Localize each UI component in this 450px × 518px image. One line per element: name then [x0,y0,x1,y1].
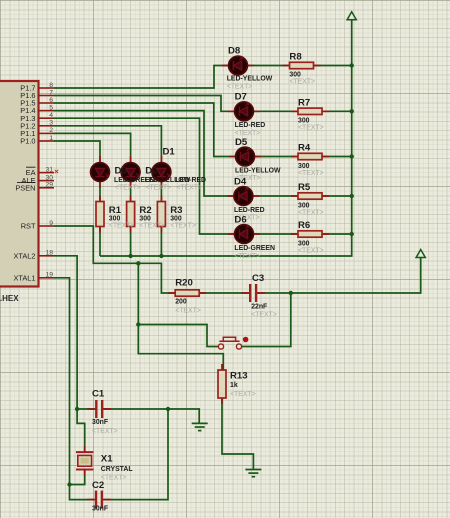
node rail-D6 [350,232,354,236]
pin 1 P1.0 stub [39,140,55,142]
svg-text:7: 7 [49,89,53,96]
resistor R13 [218,364,226,404]
svg-text:LED-GREEN: LED-GREEN [234,245,275,252]
svg-text:D6: D6 [234,215,246,226]
svg-text:XTAL1: XTAL1 [13,273,35,282]
svg-text:C1: C1 [92,389,105,400]
pin 6 P1.5 stub [39,102,55,104]
svg-text:R13: R13 [230,371,248,382]
pin 4 P1.3 stub [39,117,55,119]
svg-text:R6: R6 [298,220,310,231]
svg-text:D1: D1 [163,147,176,158]
svg-text:LED-RED: LED-RED [235,122,266,129]
pin 29 PSEN stub [39,187,55,189]
svg-text:D8: D8 [228,46,241,57]
svg-text:<TEXT>: <TEXT> [230,391,256,398]
svg-text:P1.0: P1.0 [20,137,35,146]
svg-text:<TEXT>: <TEXT> [289,79,315,86]
svg-text:<TEXT>: <TEXT> [234,253,260,260]
svg-text:R8: R8 [289,52,302,63]
svg-text:<TEXT>: <TEXT> [175,307,201,314]
svg-text:4: 4 [49,112,53,119]
ground below R13 [245,470,261,477]
wire XTAL2 to crystal top [77,409,85,452]
svg-text:D4: D4 [234,177,247,188]
wire C1 to ground [103,409,199,423]
microcontroller U1 body [0,81,39,287]
svg-text:300: 300 [139,215,151,222]
svg-text:8: 8 [49,82,53,89]
LED D2 [121,156,140,188]
svg-text:200: 200 [175,299,187,306]
node rail-D5 [350,154,354,158]
svg-text:3: 3 [49,120,53,127]
power arrow top [347,12,356,20]
svg-text:XTAL2: XTAL2 [13,251,35,260]
svg-text:D5: D5 [235,137,248,148]
svg-text:C2: C2 [92,480,104,491]
pin 19 XTAL1 stub [39,277,55,279]
node C1-left [75,407,79,411]
wire C1 node to C2 right [103,409,168,500]
push button switch [218,337,241,349]
wire P1.1 to D2 chain [54,133,131,256]
LED D7 [228,102,260,121]
svg-text:18: 18 [45,250,53,257]
svg-text:30: 30 [45,174,53,181]
wire P1.2 to D1 chain [54,126,161,256]
svg-text:D3: D3 [115,166,127,177]
svg-text:R4: R4 [298,143,311,154]
svg-text:RST: RST [21,222,36,231]
LED D8 [222,56,254,75]
svg-text:<TEXT>: <TEXT> [115,185,141,192]
wire power rail [100,20,352,257]
svg-text:C3: C3 [252,273,264,284]
pin 5 P1.4 stub [39,110,55,112]
wire node to C2 left [70,485,97,500]
svg-text:30nF: 30nF [92,506,108,513]
svg-text:1: 1 [49,135,53,142]
svg-text:300: 300 [298,202,310,209]
wire P1.4 to D4 row [54,111,352,196]
svg-text:31: 31 [45,166,53,173]
wire reset node down to R13 [138,263,223,369]
svg-text:300: 300 [298,163,310,170]
wire C1 left lead wire [77,408,96,410]
node reset-B [136,261,140,265]
pin 3 P1.2 stub [39,125,55,127]
PSEN overline [17,181,36,183]
wire P1.5 to D5 row [54,103,352,157]
resistor R6 [291,231,329,237]
LED D5 [229,147,261,166]
capacitor C2 [87,491,111,509]
svg-text:LED-YELLOW: LED-YELLOW [235,167,281,174]
pin 30 ALE stub [39,180,55,182]
svg-text:<TEXT>: <TEXT> [251,312,277,319]
svg-text:<TEXT>: <TEXT> [298,247,324,254]
svg-text:29: 29 [45,182,53,189]
node switch-branch [136,322,140,326]
resistor R2 [127,196,135,233]
crystal X1 [76,446,93,476]
svg-text:<TEXT>: <TEXT> [170,223,196,230]
svg-text:300: 300 [109,215,121,222]
resistor R3 [157,196,165,233]
resistor R8 [283,62,321,68]
wire XTAL2 down [54,256,77,409]
node crystal-bottom [67,482,71,486]
node C1-right [166,407,170,411]
wire P1.7 to D8 row [54,66,352,89]
wire RST to R20 node [54,226,251,293]
svg-text:Z.HEX: Z.HEX [0,294,19,303]
svg-text:300: 300 [298,118,310,125]
pin 7 P1.6 stub [39,95,55,97]
svg-text:R7: R7 [298,98,310,109]
svg-text:300: 300 [298,240,310,247]
svg-text:PSEN: PSEN [15,183,35,192]
wire P1.0 to D3 chain [54,141,100,256]
wire branch to switch [138,325,218,347]
svg-text:<TEXT>: <TEXT> [298,209,324,216]
capacitor C1 [87,400,111,418]
resistor R20 [168,290,206,296]
svg-text:<TEXT>: <TEXT> [298,125,324,132]
no-connect mark pin 31 [55,170,58,173]
pin 31 EA stub [39,172,55,174]
pin 2 P1.1 stub [39,132,55,134]
pin 18 XTAL2 stub [39,255,55,257]
power arrow right [416,250,425,258]
svg-text:LED-YELLOW: LED-YELLOW [227,75,273,82]
wire R13 to ground [222,398,253,469]
ground near C1 [192,423,208,430]
resistor R4 [291,153,329,159]
LED D6 [228,225,260,244]
svg-text:<TEXT>: <TEXT> [235,130,261,137]
node rail-D7 [350,109,354,113]
svg-text:<TEXT>: <TEXT> [92,428,118,435]
svg-text:<TEXT>: <TEXT> [298,170,324,177]
svg-text:6: 6 [49,97,53,104]
svg-text:X1: X1 [101,454,113,465]
svg-text:R20: R20 [175,278,193,289]
LED D1 [152,156,171,188]
switch indicator dot [243,337,249,343]
svg-text:9: 9 [49,220,53,227]
svg-text:LED-RED: LED-RED [234,207,265,214]
svg-text:LED-RED: LED-RED [175,177,206,184]
svg-text:R5: R5 [298,182,311,193]
svg-text:<TEXT>: <TEXT> [176,185,202,192]
resistor R5 [291,193,329,199]
wire P1.3 to D6 row [54,118,352,234]
svg-text:300: 300 [170,215,182,222]
pin 9 RST stub [39,225,55,227]
node rail-R2 [128,254,132,258]
LED D3 [91,156,110,188]
svg-text:CRYSTAL: CRYSTAL [101,466,133,473]
svg-text:<TEXT>: <TEXT> [227,83,253,90]
node rail-R3 [159,254,163,258]
resistor R1 [96,196,104,233]
node rail-D8 [350,63,354,67]
svg-text:<TEXT>: <TEXT> [101,475,127,482]
svg-text:22nF: 22nF [251,304,267,311]
pin 8 P1.7 stub [39,87,55,89]
svg-text:<TEXT>: <TEXT> [109,223,135,230]
svg-text:<TEXT>: <TEXT> [139,223,165,230]
wire crystal bottom to node [70,470,85,485]
wire switch to C3 node [242,293,291,347]
LED D4 [227,187,259,206]
svg-text:19: 19 [45,272,53,279]
EA overline [26,166,36,168]
svg-text:5: 5 [49,104,53,111]
svg-text:1k: 1k [230,382,238,389]
svg-text:<TEXT>: <TEXT> [146,185,172,192]
svg-text:D2: D2 [145,166,157,177]
svg-text:30nF: 30nF [92,419,108,426]
wire XTAL1 down [54,278,70,485]
svg-text:2: 2 [49,127,53,134]
node rail-D4 [350,194,354,198]
wire P1.6 to D7 row [54,96,352,112]
capacitor C3 [241,284,265,302]
resistor R7 [291,108,329,114]
wire C3 to power arrow [256,258,421,294]
svg-text:300: 300 [289,72,301,79]
svg-text:D7: D7 [235,92,247,103]
node C3-right [289,291,293,295]
